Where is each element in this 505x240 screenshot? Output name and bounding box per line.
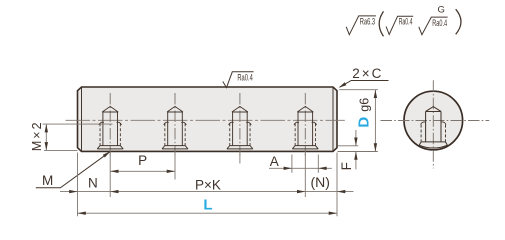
dimension M x2 (thread depth, left) xyxy=(30,120,113,151)
symbol G Ra0.4 xyxy=(419,17,448,35)
svg-text:A: A xyxy=(270,154,279,169)
surface symbol Ra0.4 on shaft top xyxy=(223,72,254,88)
svg-text:(N): (N) xyxy=(310,174,329,190)
dimension D g6 (diameter, right) xyxy=(339,90,378,152)
shaft body xyxy=(78,87,338,151)
dimension L (overall length, blue) xyxy=(78,197,338,215)
symbol Ra0.4 xyxy=(386,16,413,34)
dimension F (spot face depth, right) xyxy=(338,130,378,170)
svg-text:P: P xyxy=(138,153,147,168)
chamfer label 2xC xyxy=(339,66,389,88)
close paren xyxy=(456,9,461,34)
svg-text:M: M xyxy=(42,173,53,188)
surface finish note top right xyxy=(346,5,461,37)
svg-text:L: L xyxy=(203,197,212,214)
left chamfer edge line xyxy=(81,88,83,151)
dimension row N / PxK / (N) xyxy=(60,153,354,217)
dimension A (spot face dia) xyxy=(269,154,332,173)
svg-text:N: N xyxy=(88,175,98,190)
svg-text:Ra0.4: Ra0.4 xyxy=(399,17,413,27)
end view circle xyxy=(404,91,463,150)
svg-text:M×2: M×2 xyxy=(30,120,44,151)
end view tapped hole xyxy=(419,107,447,148)
svg-text:G: G xyxy=(438,5,445,16)
svg-text:g6: g6 xyxy=(357,98,371,112)
svg-text:Ra0.4: Ra0.4 xyxy=(432,18,447,28)
end view horizontal centerline xyxy=(381,120,490,122)
svg-text:D: D xyxy=(356,117,373,128)
dimension P (hole pitch) xyxy=(110,153,175,179)
svg-text:2×C: 2×C xyxy=(352,66,383,81)
hole 3 centerline stub xyxy=(239,154,241,164)
shaft centerline xyxy=(64,119,345,121)
symbol Ra6.3 xyxy=(346,16,376,35)
open paren xyxy=(379,11,383,36)
leader label M (thread size) xyxy=(36,151,111,187)
tapped hole 1 xyxy=(97,93,123,156)
end view vertical centerline xyxy=(432,80,434,168)
tapped hole 4 xyxy=(292,93,318,156)
tapped hole 2 xyxy=(162,93,188,156)
tapped hole 3 xyxy=(227,93,253,156)
svg-text:F: F xyxy=(339,162,354,170)
right chamfer edge line xyxy=(332,88,334,151)
svg-text:Ra6.3: Ra6.3 xyxy=(360,17,375,27)
svg-text:Ra0.4: Ra0.4 xyxy=(237,72,252,82)
svg-text:P×K: P×K xyxy=(195,177,221,192)
